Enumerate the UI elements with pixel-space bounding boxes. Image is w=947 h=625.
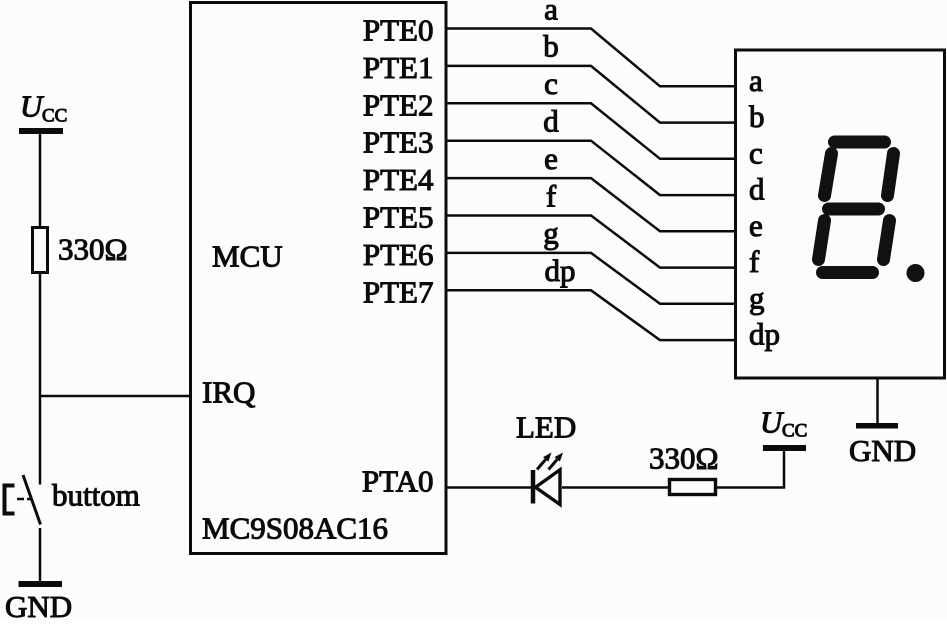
svg-text:PTE2: PTE2	[363, 87, 434, 122]
svg-text:e: e	[544, 141, 558, 176]
svg-text:PTE4: PTE4	[363, 162, 434, 197]
svg-text:b: b	[543, 29, 559, 64]
svg-text:b: b	[749, 99, 765, 134]
svg-text:dp: dp	[545, 253, 576, 288]
svg-text:IRQ: IRQ	[202, 375, 255, 410]
svg-text:GND: GND	[849, 433, 916, 468]
svg-text:PTE6: PTE6	[363, 237, 434, 272]
svg-text:CC: CC	[782, 421, 807, 442]
svg-text:330Ω: 330Ω	[649, 441, 719, 476]
svg-text:PTE3: PTE3	[363, 125, 434, 160]
svg-text:MCU: MCU	[212, 239, 283, 274]
svg-text:g: g	[749, 280, 765, 315]
svg-text:c: c	[749, 135, 763, 170]
svg-text:PTE1: PTE1	[363, 50, 434, 85]
svg-text:PTA0: PTA0	[362, 464, 434, 499]
svg-text:d: d	[543, 104, 559, 139]
svg-text:d: d	[749, 172, 765, 207]
svg-text:GND: GND	[5, 589, 72, 620]
svg-text:a: a	[749, 63, 763, 98]
svg-text:c: c	[544, 66, 558, 101]
svg-text:g: g	[543, 216, 559, 251]
svg-text:PTE7: PTE7	[363, 274, 434, 309]
svg-text:CC: CC	[42, 106, 67, 127]
svg-text:MC9S08AC16: MC9S08AC16	[202, 511, 388, 546]
svg-text:dp: dp	[749, 317, 780, 352]
svg-text:a: a	[544, 0, 558, 27]
svg-text:buttom: buttom	[52, 478, 140, 513]
svg-text:f: f	[546, 179, 557, 214]
svg-text:e: e	[749, 208, 763, 243]
svg-text:330Ω: 330Ω	[58, 232, 128, 267]
svg-text:PTE0: PTE0	[363, 13, 434, 48]
svg-text:f: f	[749, 244, 760, 279]
svg-text:PTE5: PTE5	[363, 200, 434, 235]
svg-text:LED: LED	[516, 410, 576, 445]
